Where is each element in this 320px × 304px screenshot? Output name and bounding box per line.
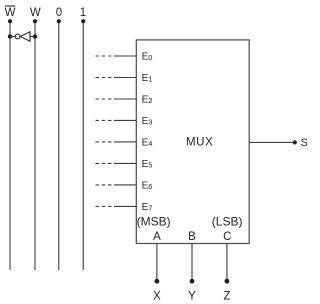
terminal dot Y <box>190 279 195 284</box>
terminal dot Z <box>225 279 230 284</box>
wire E2 input (dashed stub + solid) <box>96 98 137 100</box>
wire select C <box>226 244 228 281</box>
terminal dot 0 <box>57 19 61 23</box>
MUX U2 box <box>136 40 249 244</box>
wire W rail to inverter input <box>30 36 35 38</box>
svg-text:B: B <box>188 231 196 243</box>
svg-text:E5: E5 <box>142 159 153 170</box>
svg-text:(MSB): (MSB) <box>137 214 171 228</box>
wire select B <box>191 244 193 281</box>
svg-text:A: A <box>153 231 161 243</box>
wire 1 rail <box>82 21 84 270</box>
svg-text:E4: E4 <box>142 137 153 148</box>
wire select A <box>156 244 158 281</box>
wire E5 input (dashed stub + solid) <box>96 162 137 164</box>
svg-text:0: 0 <box>56 7 62 19</box>
wire E3 input (dashed stub + solid) <box>96 119 137 121</box>
wire E4 input (dashed stub + solid) <box>96 141 137 143</box>
junction on Wbar rail <box>8 34 12 38</box>
svg-text:MUX: MUX <box>186 137 213 149</box>
terminal dot S <box>293 140 297 144</box>
svg-text:C: C <box>223 231 231 243</box>
node Wbar label <box>5 6 16 19</box>
wire E0 input (dashed stub + solid) <box>96 55 137 57</box>
terminal dot Wbar <box>8 19 12 23</box>
wire Wbar rail <box>9 21 11 270</box>
terminal dot W <box>33 19 37 23</box>
svg-text:W: W <box>30 7 41 19</box>
svg-text:E7: E7 <box>142 202 153 213</box>
svg-text:E2: E2 <box>142 95 153 106</box>
svg-text:1: 1 <box>80 7 86 19</box>
wire E6 input (dashed stub + solid) <box>96 184 137 186</box>
wire output S <box>249 141 295 143</box>
svg-text:X: X <box>153 290 161 302</box>
svg-text:E0: E0 <box>142 52 153 63</box>
terminal dot X <box>155 279 160 284</box>
svg-text:E3: E3 <box>142 116 153 127</box>
junction on W rail <box>33 34 37 38</box>
inverter U1 bubble <box>15 34 20 39</box>
svg-text:S: S <box>301 137 308 149</box>
wire E1 input (dashed stub + solid) <box>96 77 137 79</box>
svg-text:Y: Y <box>188 290 196 302</box>
svg-text:E1: E1 <box>142 73 153 84</box>
inverter U1 triangle <box>20 32 30 41</box>
terminal dot 1 <box>81 19 85 23</box>
svg-text:W: W <box>5 7 16 19</box>
svg-text:(LSB): (LSB) <box>212 214 243 228</box>
wire 0 rail <box>58 21 60 270</box>
svg-text:E6: E6 <box>142 180 153 191</box>
wire inverter output to Wbar rail <box>10 36 16 38</box>
svg-text:Z: Z <box>223 290 230 302</box>
wire E7 input (dashed stub + solid) <box>96 205 137 207</box>
wire W rail <box>34 21 36 270</box>
